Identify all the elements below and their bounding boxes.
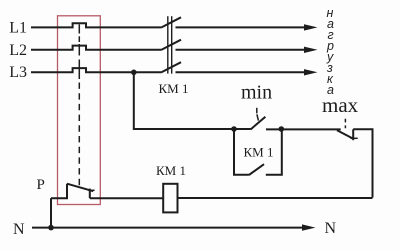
svg-text:L3: L3 [9,64,27,81]
svg-text:КМ 1: КМ 1 [244,145,274,160]
svg-text:min: min [241,82,272,104]
svg-text:P: P [37,177,45,193]
svg-text:N: N [13,221,25,238]
svg-text:КМ 1: КМ 1 [159,81,189,96]
svg-text:N: N [325,220,337,237]
svg-text:а: а [327,83,334,97]
svg-text:КМ 1: КМ 1 [156,163,186,178]
svg-text:L2: L2 [9,42,27,59]
svg-text:L1: L1 [9,19,27,36]
